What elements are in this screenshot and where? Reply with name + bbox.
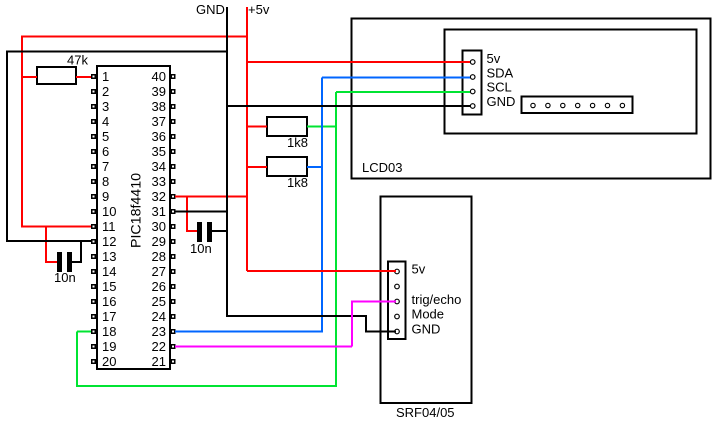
svg-text:47k: 47k (67, 53, 88, 68)
module LCD03 connector hole 3 (561, 103, 565, 107)
IC U1 pin 31 square (171, 209, 176, 214)
IC U1 pin 40 square (171, 74, 176, 79)
svg-text:40: 40 (152, 69, 166, 84)
svg-text:24: 24 (152, 309, 166, 324)
IC U1 pin 20 square (91, 359, 96, 364)
svg-text:PIC18f4410: PIC18f4410 (128, 173, 144, 248)
wire to SRF04 trig/echo pin (magenta) (351, 301, 396, 303)
IC U1 pin 28 square (171, 254, 176, 259)
svg-text:28: 28 (152, 249, 166, 264)
wire to pin 12 (black) (6, 240, 91, 242)
wire SCL vertical (green) (335, 92, 337, 386)
svg-text:21: 21 (152, 354, 166, 369)
module SRF04/05 pin Mode circle (395, 314, 400, 319)
module LCD03 outer box (352, 19, 711, 179)
IC U1 pin 4 square (91, 119, 96, 124)
svg-text:19: 19 (102, 339, 116, 354)
svg-text:32: 32 (152, 189, 166, 204)
svg-text:trig/echo: trig/echo (412, 292, 462, 307)
svg-text:31: 31 (152, 204, 166, 219)
IC U1 pin 36 square (171, 134, 176, 139)
IC U1 pin 23 square (171, 329, 176, 334)
svg-text:9: 9 (102, 189, 109, 204)
wire to pin 11 (red) (21, 226, 91, 228)
module LCD03 connector hole 7 (620, 103, 624, 107)
wire pin 18 stub (green) (77, 331, 91, 333)
wire resistor 1k8 lower right to SDA vertical (blue) (307, 166, 322, 168)
IC U1 pin 8 square (91, 179, 96, 184)
resistor 47k body (37, 67, 76, 84)
svg-text:10n: 10n (54, 270, 76, 285)
svg-text:5v: 5v (412, 262, 426, 277)
IC U1 pin 25 square (171, 299, 176, 304)
wire top-left frame horizontal (black) (6, 51, 227, 53)
wire +5v to resistor 1k8 lower left (red) (247, 166, 267, 168)
wire SDA: LCD03 SDA horizontal (blue) (322, 77, 470, 79)
svg-text:LCD03: LCD03 (362, 160, 402, 175)
module LCD03 connector hole 1 (531, 103, 535, 107)
wire pin32 branch to capacitor C2 left plate (red) (186, 197, 197, 232)
module SRF04/05 pin GND circle (395, 329, 400, 334)
wire left +5v vertical (red) (21, 37, 23, 228)
wire SCL left vertical (green) (76, 332, 78, 387)
IC U1 pin 13 square (91, 254, 96, 259)
IC U1 pin 1 square (91, 74, 96, 79)
wire +5v to resistor 47k left (red) (22, 76, 37, 78)
IC U1 pin 9 square (91, 194, 96, 199)
svg-text:15: 15 (102, 279, 116, 294)
module LCD03 pin 5v circle (470, 60, 475, 65)
svg-text:27: 27 (152, 264, 166, 279)
IC U1 pin 30 square (171, 224, 176, 229)
wire pin 22 to trig/echo vertical (magenta) (175, 346, 352, 348)
module SRF04/05 pin 5v circle (395, 269, 400, 274)
wire pin 31 to GND vertical (black) (175, 211, 227, 213)
module LCD03 pin GND circle (470, 104, 475, 109)
module LCD03 pin SDA circle (470, 75, 475, 80)
IC U1 PIC18f4410 body (97, 66, 170, 369)
svg-text:13: 13 (102, 249, 116, 264)
module SRF04/05 header box (388, 262, 406, 340)
svg-text:5v: 5v (487, 51, 501, 66)
svg-text:+5v: +5v (248, 2, 270, 17)
wire SCL bottom horizontal (green) (76, 385, 337, 387)
wire pin11 branch to capacitor C1 left plate (red) (45, 227, 57, 263)
svg-text:GND: GND (196, 2, 225, 17)
module SRF04/05 outer box (381, 197, 472, 404)
IC U1 pin 35 square (171, 149, 176, 154)
svg-text:20: 20 (102, 354, 116, 369)
svg-text:SCL: SCL (487, 80, 512, 95)
IC U1 pin 2 square (91, 89, 96, 94)
svg-text:11: 11 (102, 219, 116, 234)
module LCD03 display box (445, 30, 697, 134)
svg-text:25: 25 (152, 294, 166, 309)
svg-text:36: 36 (152, 129, 166, 144)
IC U1 pin 24 square (171, 314, 176, 319)
IC U1 pin 7 square (91, 164, 96, 169)
svg-text:Mode: Mode (412, 307, 445, 322)
svg-text:29: 29 (152, 234, 166, 249)
IC U1 pin 22 square (171, 344, 176, 349)
wire pin 32 to +5v (red) (175, 196, 247, 198)
IC U1 pin 6 square (91, 149, 96, 154)
IC U1 pin 26 square (171, 284, 176, 289)
module LCD03 pin SCL circle (470, 89, 475, 94)
wire SCL: LCD03 SCL horizontal (green) (336, 91, 470, 93)
svg-text:GND: GND (487, 94, 516, 109)
svg-text:37: 37 (152, 114, 166, 129)
wire +5v to LCD03 5v pin (red) (247, 61, 470, 63)
svg-text:2: 2 (102, 84, 109, 99)
wire SDA vertical (blue) (321, 78, 323, 332)
wire +5v to resistor 1k8 upper left (red) (247, 126, 267, 128)
IC U1 pin 10 square (91, 209, 96, 214)
svg-text:34: 34 (152, 159, 166, 174)
svg-text:5: 5 (102, 129, 109, 144)
svg-text:1k8: 1k8 (287, 135, 308, 150)
svg-text:7: 7 (102, 159, 109, 174)
IC U1 pin 12 square (91, 239, 96, 244)
module LCD03 connector hole 6 (605, 103, 609, 107)
IC U1 pin 5 square (91, 134, 96, 139)
svg-text:26: 26 (152, 279, 166, 294)
IC U1 pin 17 square (91, 314, 96, 319)
IC U1 pin 33 square (171, 179, 176, 184)
wire GND vertical main (black) (226, 7, 228, 316)
IC U1 pin 15 square (91, 284, 96, 289)
IC U1 pin 27 square (171, 269, 176, 274)
IC U1 pin 3 square (91, 104, 96, 109)
IC U1 pin 32 square (171, 194, 176, 199)
svg-text:39: 39 (152, 84, 166, 99)
resistor 1k8 upper body (267, 117, 307, 136)
module SRF04/05 pin 2 circle (395, 284, 400, 289)
IC U1 pin 21 square (171, 359, 176, 364)
IC U1 pin 37 square (171, 119, 176, 124)
wire pin12 branch to capacitor C1 right plate (black) (72, 241, 82, 262)
svg-text:22: 22 (152, 339, 166, 354)
svg-text:38: 38 (152, 99, 166, 114)
wire resistor 47k right to pin 1 (red) (76, 76, 91, 78)
svg-text:17: 17 (102, 309, 116, 324)
module SRF04/05 pin trig/echo circle (395, 299, 400, 304)
resistor 1k8 lower body (267, 157, 307, 176)
module LCD03 7-hole connector strip (522, 97, 633, 114)
svg-text:18: 18 (102, 324, 116, 339)
wire +5v vertical main (red) (246, 7, 248, 271)
IC U1 pin 11 square (91, 224, 96, 229)
svg-text:33: 33 (152, 174, 166, 189)
svg-text:10n: 10n (190, 241, 212, 256)
wire GND to LCD03 GND pin (black) (227, 105, 470, 107)
module LCD03 connector hole 4 (576, 103, 580, 107)
module LCD03 header box (463, 51, 482, 115)
module LCD03 connector hole 5 (590, 103, 594, 107)
IC U1 pin 39 square (171, 89, 176, 94)
IC U1 pin 29 square (171, 239, 176, 244)
svg-text:10: 10 (102, 204, 116, 219)
IC U1 pin 19 square (91, 344, 96, 349)
svg-text:SDA: SDA (487, 66, 514, 81)
IC U1 pin 38 square (171, 104, 176, 109)
svg-text:SRF04/05: SRF04/05 (396, 405, 455, 420)
IC U1 pin 18 square (91, 329, 96, 334)
wire capacitor C2 right plate to GND vertical (black) (212, 230, 227, 232)
svg-text:4: 4 (102, 114, 109, 129)
wire +5v top rail (red) (21, 36, 247, 38)
svg-text:16: 16 (102, 294, 116, 309)
wire left frame vertical (black) (6, 52, 8, 242)
IC U1 pin 34 square (171, 164, 176, 169)
wire +5v to SRF04 5v pin (red) (247, 270, 396, 272)
wire GND to SRF04 GND pin (black) (226, 316, 396, 332)
capacitor C2 10n plates (right) (197, 222, 212, 242)
svg-text:1k8: 1k8 (287, 175, 308, 190)
svg-text:3: 3 (102, 99, 109, 114)
wire resistor 1k8 upper right to SCL vertical (green) (307, 126, 336, 128)
capacitor C1 10n plates (left) (57, 252, 72, 272)
svg-text:30: 30 (152, 219, 166, 234)
svg-text:35: 35 (152, 144, 166, 159)
svg-text:1: 1 (102, 69, 109, 84)
svg-text:6: 6 (102, 144, 109, 159)
module LCD03 connector hole 2 (546, 103, 550, 107)
svg-text:12: 12 (102, 234, 116, 249)
svg-text:GND: GND (412, 322, 441, 337)
wire pin 23 to SDA vertical (blue) (175, 331, 323, 333)
wire trig/echo vertical (magenta) (351, 302, 353, 347)
svg-text:8: 8 (102, 174, 109, 189)
IC U1 pin 16 square (91, 299, 96, 304)
IC U1 pin 14 square (91, 269, 96, 274)
svg-text:23: 23 (152, 324, 166, 339)
svg-text:14: 14 (102, 264, 116, 279)
